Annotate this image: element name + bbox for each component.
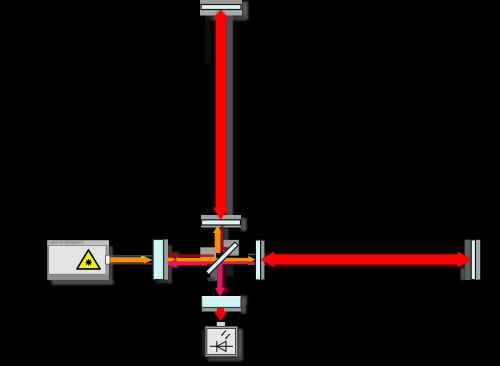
svg-text:Laserstrahlquelle: Laserstrahlquelle xyxy=(49,241,84,245)
